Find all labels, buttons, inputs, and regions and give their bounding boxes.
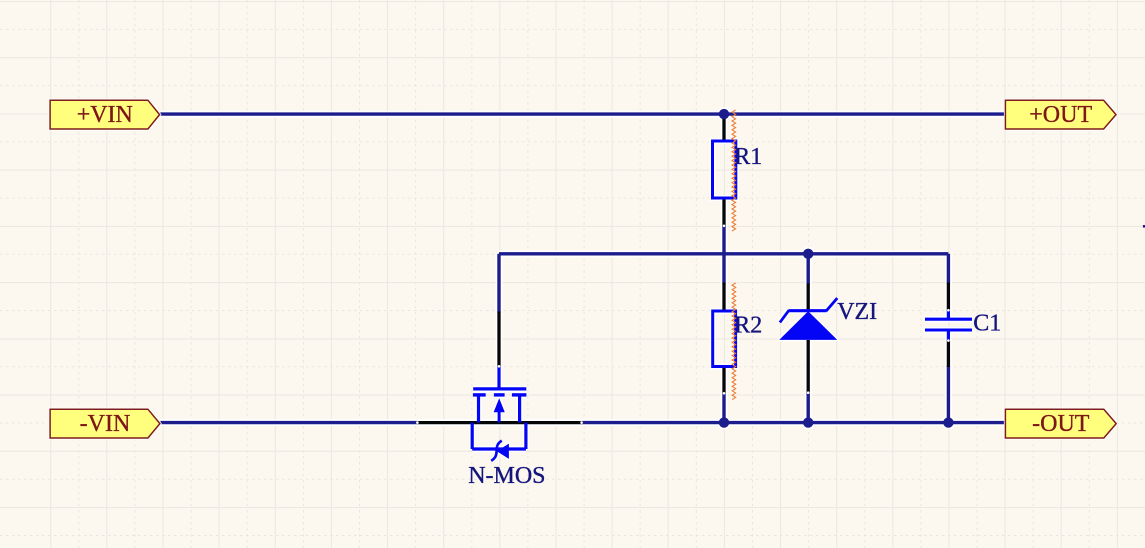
svg-text:R1: R1 xyxy=(734,144,762,170)
svg-text:VZI: VZI xyxy=(837,299,877,325)
svg-text:+OUT: +OUT xyxy=(1029,102,1092,128)
svg-text:C1: C1 xyxy=(973,311,1001,337)
svg-text:R2: R2 xyxy=(734,313,762,339)
svg-text:-OUT: -OUT xyxy=(1032,411,1090,437)
svg-text:N-MOS: N-MOS xyxy=(468,463,545,489)
svg-text:+VIN: +VIN xyxy=(77,102,133,128)
svg-text:-VIN: -VIN xyxy=(80,411,131,437)
